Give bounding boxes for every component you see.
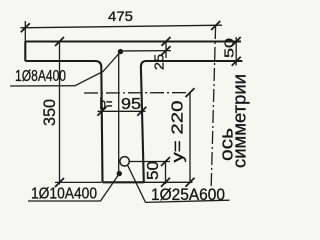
dimension 50 bottom line [165,162,167,185]
svg-text:95: 95 [121,96,141,113]
tick y220 bottom [186,178,195,187]
extension line left [24,21,26,42]
rebar dot bottom (1Ø10) [117,171,122,176]
tick y220 top [186,88,195,97]
svg-text:y= 220: y= 220 [170,100,187,162]
leader 1Ø10A400 [28,176,118,202]
svg-text:50: 50 [145,161,162,180]
tick 50b bottom [161,178,170,187]
tick 350 top [55,37,64,46]
svg-text:1Ø25A600: 1Ø25A600 [151,186,225,204]
tick 475 left [21,23,30,32]
svg-text:симметрии: симметрии [230,74,250,168]
tick 50tr bottom [232,57,241,66]
tick b95 right [137,107,146,116]
extension from circle to 50b dim [130,161,171,163]
svg-text:350: 350 [41,99,59,126]
svg-text:1Ø10A400: 1Ø10A400 [31,186,97,203]
tick 350 bottom [55,178,64,187]
svg-text:25: 25 [153,54,167,70]
tick 50b top [161,157,170,166]
extension web bottom right [142,181,193,183]
dimension 25 line [165,42,167,59]
rebar top level line (25 dim) [121,50,172,52]
svg-text:50: 50 [223,38,237,58]
dimension y=220 line [189,93,191,183]
svg-text:475: 475 [108,8,133,24]
centroid dash-dot line [84,92,191,94]
dimension 50 top-right line [235,37,237,66]
tick 475 right [211,21,220,30]
axis of symmetry (dash-dot vertical) [211,26,215,186]
svg-text:1Ø8A400: 1Ø8A400 [15,68,66,85]
dimension b=95 line [98,110,146,112]
leader 1Ø8A400 [10,54,119,87]
rebar dot top (1Ø8) [118,49,123,54]
rebar circle (1Ø25) [120,157,129,166]
dimension 475 line [21,25,223,28]
dimension 350 line [59,42,61,185]
svg-text:b=: b= [100,96,113,113]
tick 25 bottom [162,46,171,55]
leader 1Ø25A600 [128,165,230,202]
tick b95 left [97,107,106,116]
rebar vertical link line [118,52,120,173]
extension 350 bottom [55,181,102,183]
tick 25 top [162,37,171,46]
tick 50tr top [232,37,241,46]
beam outline: T-rib half section [25,42,242,183]
